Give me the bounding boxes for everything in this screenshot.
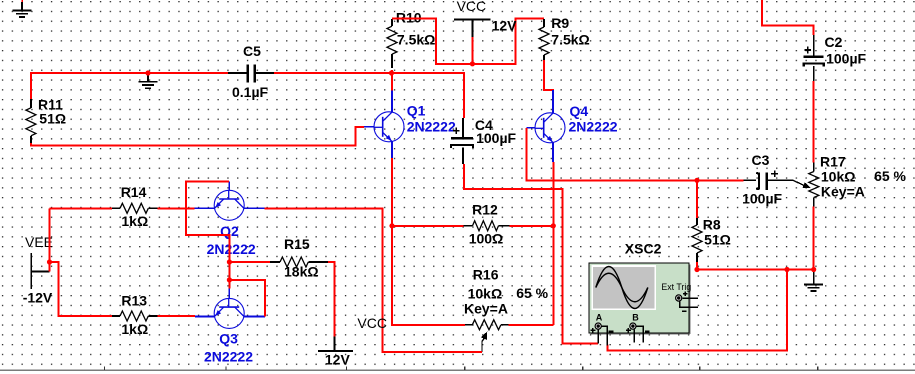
svg-text:Key=A: Key=A [464,300,508,316]
wire [683,297,698,299]
node junction [227,277,232,282]
wire [597,329,599,343]
svg-text:B: B [632,312,639,322]
wire [274,73,464,118]
wire [31,127,364,145]
svg-text:2N2222: 2N2222 [569,119,618,135]
svg-text:R16: R16 [473,267,499,283]
resistor R10 [387,9,435,68]
wire [552,162,554,325]
wire [633,329,635,342]
svg-text:VCC: VCC [457,0,487,14]
svg-text:51Ω: 51Ω [39,111,66,127]
svg-text:C5: C5 [243,43,261,59]
svg-text:1kΩ: 1kΩ [121,321,148,337]
transistor Q3 [195,288,265,364]
resistor R9 [539,15,590,60]
wire [508,324,553,326]
svg-text:R15: R15 [284,236,310,252]
svg-text:65 %: 65 % [516,285,548,301]
node junction [470,61,475,66]
svg-text:R8: R8 [703,217,721,233]
ground [804,270,823,292]
power VEE [23,234,53,306]
resistor R15 [270,236,328,279]
svg-text:100µF: 100µF [742,190,782,206]
wire [230,280,266,317]
svg-text:XSC2: XSC2 [625,240,662,256]
svg-text:VCC: VCC [357,315,387,331]
wire [392,19,544,64]
node junction [811,267,816,272]
svg-text:Key=A: Key=A [821,183,865,199]
ground [139,73,158,88]
power VCC [454,0,517,37]
svg-text:Q3: Q3 [219,331,238,347]
wire [762,0,814,35]
svg-text:Q1: Q1 [407,102,426,118]
wire [49,208,51,271]
capacitor C2 [804,34,867,81]
resistor R11 [26,96,66,143]
wire [696,180,698,218]
svg-text:0.1µF: 0.1µF [232,84,269,100]
svg-text:2N2222: 2N2222 [407,119,456,135]
wire [392,158,465,325]
wire [186,182,229,289]
potentiometer R16 [464,267,549,352]
wire [696,262,698,270]
wire [265,208,482,352]
wire [464,164,598,343]
wire [471,37,473,64]
svg-text:R13: R13 [121,292,147,308]
node junction [227,259,232,264]
wire [158,207,195,209]
wire [328,262,334,336]
power VCC [318,315,387,368]
node junction [145,70,150,75]
svg-text:7.5kΩ: 7.5kΩ [551,31,589,47]
wire [544,60,553,98]
svg-text:A: A [596,312,603,322]
wire [31,73,228,99]
svg-text:R10: R10 [396,9,422,25]
node junction [389,70,394,75]
wire [636,326,643,342]
wire [813,81,815,162]
wire [510,225,554,227]
svg-text:10kΩ: 10kΩ [821,168,856,184]
node junction [47,259,52,264]
svg-text:65 %: 65 % [874,168,906,184]
node junction [784,267,789,272]
transistor Q1 [364,91,456,159]
node junction [389,223,394,228]
wire [607,270,787,351]
capacitor C3 [742,152,793,206]
resistor R14 [112,184,157,229]
wire [0,367,915,371]
wire [527,128,744,181]
wire [680,301,698,307]
node junction [694,267,699,272]
svg-text:C2: C2 [825,34,843,50]
svg-text:100µF: 100µF [826,51,866,67]
node junction [694,178,699,183]
wire [813,207,815,270]
transistor Q2 [194,182,264,257]
svg-text:10kΩ: 10kΩ [468,286,503,302]
svg-text:2N2222: 2N2222 [204,349,253,365]
resistor R13 [112,292,157,337]
transistor Q4 [527,90,618,162]
svg-text:12V: 12V [492,17,518,33]
svg-text:1kΩ: 1kΩ [121,213,148,229]
ground [13,0,32,17]
svg-text:12V: 12V [325,352,351,368]
resistor R12 [463,202,509,247]
svg-text:R9: R9 [551,15,569,31]
node junction [551,223,556,228]
svg-text:100µF: 100µF [476,130,516,146]
wire [391,70,393,91]
capacitor C5 [228,43,274,100]
svg-text:R12: R12 [472,202,498,218]
svg-text:100Ω: 100Ω [469,231,504,247]
svg-text:C3: C3 [752,152,770,168]
capacitor C4 [451,117,517,164]
wire [602,326,608,345]
wire [50,262,113,316]
wire [229,261,270,263]
wire [392,225,463,227]
oscilloscope XSC2 [589,240,691,334]
wire [158,315,196,317]
svg-text:7.5kΩ: 7.5kΩ [397,32,435,48]
wire [50,207,113,209]
svg-text:2N2222: 2N2222 [207,241,256,257]
svg-text:Q4: Q4 [570,103,589,119]
potentiometer R17 [793,154,907,207]
svg-text:51Ω: 51Ω [704,231,731,247]
wire [697,269,814,271]
svg-text:R17: R17 [820,154,846,170]
svg-text:-12V: -12V [23,290,53,306]
svg-text:18kΩ: 18kΩ [284,263,319,279]
svg-text:Ext Trig: Ext Trig [661,282,691,292]
resistor R8 [692,217,731,263]
svg-text:R14: R14 [121,184,147,200]
